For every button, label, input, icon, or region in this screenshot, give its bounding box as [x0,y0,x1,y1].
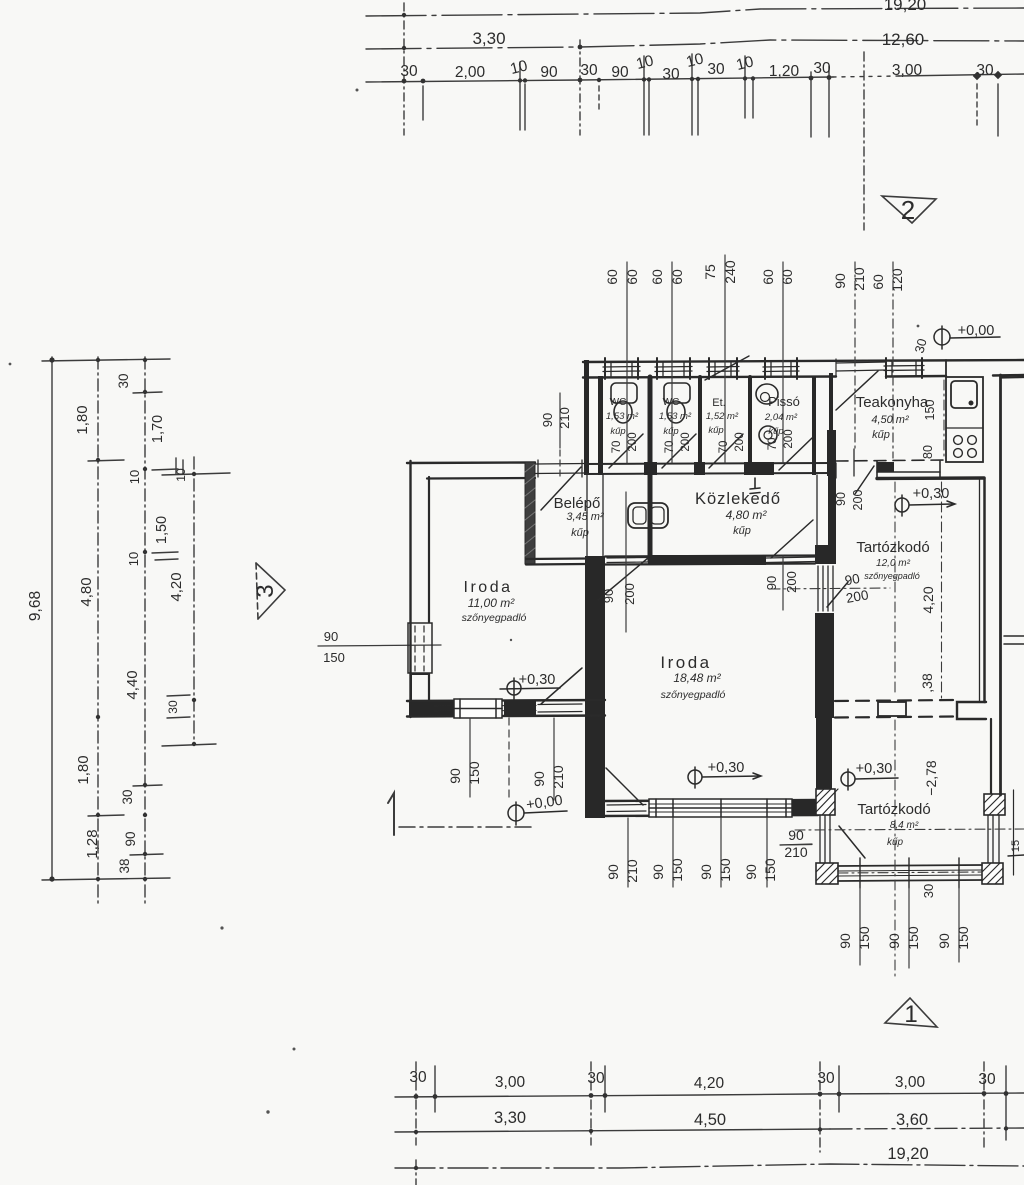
svg-text:10: 10 [734,53,755,74]
passage step Teakonyha/Tartozkodo [877,461,940,478]
rotated dims south left office [447,761,566,789]
SE step wall [957,702,986,719]
svg-text:3,00: 3,00 [895,1074,926,1091]
svg-text:80: 80 [921,445,935,459]
bottom chain labels [409,1069,996,1163]
svg-text:1,80: 1,80 [74,405,91,434]
svg-text:1: 1 [904,1001,917,1028]
svg-text:10: 10 [684,50,705,71]
svg-text:200: 200 [622,583,637,605]
svg-text:+0,30: +0,30 [913,486,950,502]
svg-text:75: 75 [702,264,718,280]
svg-text:4,20: 4,20 [168,572,185,601]
window WC1 [605,358,638,379]
svg-text:70: 70 [718,441,730,454]
svg-text:60: 60 [870,274,886,290]
level marker +0,30 lower Tartozkodo [841,769,898,790]
svg-text:90: 90 [531,771,547,787]
svg-text:200: 200 [845,587,870,606]
section line 1 left end [388,793,533,835]
ticks x745 x753 [744,56,746,118]
hatched pier NE lower [984,794,1005,815]
stray dots [9,89,920,1114]
Belepo door dim line [559,393,561,448]
corridor east door line [782,556,784,610]
svg-text:70: 70 [767,438,779,451]
dim line 19,20 top [366,8,1024,16]
rotated dims south main office [605,858,778,883]
left chain labels rotated [27,373,188,873]
double wash basin corridor [628,503,668,528]
dim pair Tartozkodo west door [844,571,870,606]
svg-text:Iroda: Iroda [464,579,513,596]
svg-text:Belépő: Belépő [554,495,601,512]
svg-text:WC: WC [610,397,627,408]
main office south wall [605,800,818,816]
svg-text:4,40: 4,40 [124,670,141,699]
level marker +0,00 Belepo terrace [508,802,567,825]
Belepo south wall [526,559,586,565]
svg-text:4,50: 4,50 [694,1111,726,1129]
hatched pier NW lower Tartozkodo [816,789,838,815]
toilet WC1 [611,383,637,423]
line B [97,357,99,905]
svg-text:18,48 m²: 18,48 m² [673,671,721,685]
svg-text:1,80: 1,80 [75,755,92,784]
dim line row 2 [395,1129,830,1132]
hatched pier SE lower [982,863,1003,884]
svg-text:10: 10 [508,57,529,78]
svg-text:30: 30 [409,1069,427,1086]
svg-text:4,20: 4,20 [920,586,936,613]
door leaf Teakonyha [836,371,878,410]
rotated dims right column [919,586,1022,852]
svg-text:90: 90 [886,933,902,949]
svg-text:19,20: 19,20 [884,0,927,14]
door leaf corridor east [771,520,813,558]
svg-text:210: 210 [624,859,640,883]
terminator top [42,359,170,361]
window size note 90/150 [323,629,345,665]
svg-text:3: 3 [252,584,279,597]
north facade wall lines [583,360,1024,378]
corridor south wall [605,556,815,565]
top chain labels [472,0,926,49]
window band main office south [649,799,792,817]
upper/lower Tartozkodo dashed dividing wall [835,700,956,718]
ticks x520 x525 [519,62,521,130]
svg-text:30: 30 [166,700,180,714]
svg-text:kűp: kűp [571,527,589,539]
svg-text:70: 70 [664,441,676,454]
svg-text:30: 30 [978,1071,996,1088]
dim line row 1 [395,1093,1024,1097]
svg-text:90: 90 [837,933,853,949]
lower Tartozkodo west wall [816,718,832,789]
Tartozkodo upper north wall [877,476,984,480]
line D 4,20 [193,457,195,745]
svg-text:90: 90 [324,629,338,644]
svg-text:kűp: kűp [663,426,678,437]
svg-text:60: 60 [779,269,795,285]
svg-text:30: 30 [817,1070,835,1087]
main office north door opening [607,558,648,563]
svg-text:3,30: 3,30 [494,1109,526,1127]
svg-text:szőnyegpadló: szőnyegpadló [462,612,527,624]
dim line 12,60 [366,40,1024,49]
tick x829 [828,66,830,137]
svg-text:1,28: 1,28 [84,829,101,858]
dim pair Tartozkodo NE door rotated [834,490,865,511]
svg-text:210: 210 [784,844,808,860]
tick bars on C [133,392,162,393]
svg-text:210: 210 [550,765,566,789]
window WC2 [657,358,690,379]
svg-text:Pissó: Pissó [768,394,800,409]
lower Tartozkodo south window band [838,865,982,881]
svg-text:30: 30 [976,62,994,79]
svg-text:240: 240 [722,260,738,284]
section marker 2 [882,196,936,223]
section marker 3 [256,563,285,619]
svg-text:,38: ,38 [919,673,935,693]
ref line A x404 [403,3,405,135]
svg-text:210: 210 [557,407,572,429]
svg-text:3,30: 3,30 [472,29,505,48]
svg-text:Tartózkodó: Tartózkodó [857,801,930,818]
svg-text:+0,30: +0,30 [856,761,893,777]
sanitary rooms south wall [585,463,835,474]
toilet WC2 [664,383,690,423]
Teakonyha south dashed opening [836,460,946,461]
svg-text:30: 30 [120,789,135,804]
svg-text:90: 90 [834,492,848,506]
svg-text:2,04 m²: 2,04 m² [764,412,798,423]
Teakonyha entry door opening [836,359,886,377]
svg-text:3,00: 3,00 [892,62,923,79]
tick dots top chain [402,13,1003,84]
svg-text:200: 200 [680,432,692,451]
svg-text:10: 10 [174,468,188,482]
tick x599 dashed [598,86,600,112]
door leaf main office south [606,768,643,805]
svg-text:60: 60 [649,269,665,285]
tick marks corridor [750,478,760,494]
svg-text:kűp: kűp [887,837,904,848]
corridor east door opening [766,557,815,563]
window in west wall [408,623,432,673]
door leaf terrace left office [541,668,582,704]
svg-text:200: 200 [851,490,865,511]
svg-text:30: 30 [662,66,680,83]
svg-text:12,0 m²: 12,0 m² [876,558,911,569]
partition WC1/WC2 with plumbing stack [648,377,653,561]
svg-text:90: 90 [788,827,804,843]
lower Tartozkodo east window jambs [988,815,999,863]
svg-text:2,00: 2,00 [455,64,486,81]
window in south wall left office [454,699,502,718]
Tartozkodo west door jambs [818,566,833,611]
svg-text:150: 150 [955,926,971,950]
kitchen counter [946,377,983,462]
lower Tartozkodo west door jambs [820,815,830,863]
svg-text:Közlekedő: Közlekedő [695,490,781,508]
svg-text:150: 150 [323,650,345,665]
east boundary walls [1001,375,1024,875]
svg-text:90: 90 [540,413,555,427]
svg-text:90: 90 [936,933,952,949]
left office north wall [407,463,535,479]
terrace door opening left office [538,704,582,712]
svg-text:19,20: 19,20 [887,1145,928,1163]
svg-text:11,00 m²: 11,00 m² [468,596,515,610]
svg-text:90: 90 [540,64,558,81]
flue slash Et [705,356,749,380]
svg-text:30: 30 [116,373,131,388]
svg-text:90: 90 [844,571,861,588]
corridor west opening jambs (Belepo passage) [587,475,603,556]
rotated dim pairs above north wall [604,260,905,292]
west wall of sanitary block / corridor (thick) [584,360,605,818]
svg-text:3,45 m²: 3,45 m² [566,511,604,523]
svg-text:−2,78: −2,78 [923,760,939,796]
door leaf main office north [598,558,648,600]
south projection lines main office [627,818,629,887]
hatched pier SW lower Tartozkodo [816,863,838,884]
urinal Pisso [756,384,778,444]
level marker +0,30 left office [500,678,560,699]
svg-text:30: 30 [921,884,936,898]
svg-text:60: 60 [669,269,685,285]
lower Tartozkodo east wall [990,719,992,794]
south wall of left office [407,700,605,717]
vertical refs [415,1062,417,1145]
Belepo north wall with entry door [535,460,586,477]
north wall pier separators [922,360,946,377]
level marker +0,30 Tartozkodo upper [895,495,955,516]
svg-text:200: 200 [783,429,795,448]
svg-text:12,60: 12,60 [882,30,925,49]
svg-text:+0,00: +0,00 [525,793,564,814]
svg-text:Tartózkodó: Tartózkodó [856,539,929,556]
svg-text:200: 200 [627,432,639,451]
svg-text:90: 90 [123,831,138,846]
svg-text:90: 90 [611,64,629,81]
south projection lines left office [469,718,471,797]
line A 9,68 [51,357,53,881]
svg-text:kűp: kűp [708,425,723,436]
svg-text:90: 90 [601,589,616,603]
svg-text:kűp: kűp [733,525,751,537]
svg-text:1,50: 1,50 [154,516,170,544]
svg-text:90: 90 [743,864,759,880]
tick x998 [997,84,999,136]
svg-text:90: 90 [650,864,666,880]
svg-text:10: 10 [127,470,142,484]
svg-text:kűp: kűp [872,429,890,441]
svg-text:15: 15 [1010,840,1022,852]
level marker +0,30 main office [688,767,761,788]
svg-text:150: 150 [669,858,685,882]
svg-text:3,60: 3,60 [896,1111,928,1129]
svg-text:90: 90 [832,273,848,289]
svg-text:90: 90 [447,768,463,784]
rotated dim pair Belepo north door [540,407,572,429]
svg-text:+0,30: +0,30 [519,672,556,688]
svg-text:38: 38 [117,858,132,873]
svg-text:120: 120 [889,268,905,292]
north windows [603,358,924,379]
window Pisso [765,358,797,379]
rotated dim pair main office north door [601,571,799,605]
svg-text:150: 150 [762,858,778,882]
triangle marker 1 [885,998,937,1027]
partition Et/Pisso [748,377,752,463]
svg-text:1,52 m²: 1,52 m² [706,411,739,422]
pier in south wall [504,700,536,716]
svg-text:+0,30: +0,30 [708,760,745,776]
svg-text:1,20: 1,20 [769,63,800,80]
svg-text:kűp: kűp [768,426,783,437]
svg-text:10: 10 [634,52,655,73]
svg-text:30: 30 [400,63,418,80]
window Et [709,358,737,379]
svg-text:4,80: 4,80 [78,577,95,606]
svg-text:kűp: kűp [610,426,625,437]
centerlines dash-dot [770,380,1024,977]
Tartozkodo east wall inner [980,478,985,702]
svg-text:3,00: 3,00 [495,1074,526,1091]
svg-text:70: 70 [611,441,623,454]
svg-text:1,53 m²: 1,53 m² [606,411,639,422]
svg-text:szőnyegpadló: szőnyegpadló [661,689,726,701]
svg-text:150: 150 [717,858,733,882]
west wall lower block [411,674,429,701]
svg-text:60: 60 [760,269,776,285]
tick x977 dashed [976,84,978,128]
section line 2 x864 [863,52,865,230]
main office north door centerline [625,492,627,632]
svg-text:30: 30 [587,1070,605,1087]
svg-text:4,50 m²: 4,50 m² [871,414,909,426]
Belepo west wall (hatched pier) [525,462,535,564]
svg-text:4,80 m²: 4,80 m² [726,508,768,522]
svg-text:Teakonyha: Teakonyha [856,394,929,411]
svg-text:60: 60 [604,269,620,285]
svg-text:Et.: Et. [712,397,725,409]
north dim projection lines [626,262,628,463]
svg-text:8,4 m²: 8,4 m² [890,820,919,831]
svg-text:150: 150 [905,926,921,950]
main office south door opening [607,805,646,812]
svg-text:4,20: 4,20 [694,1075,725,1092]
south projection lines lower Tartozkodo [859,888,861,965]
svg-text:szőnyegpadló: szőnyegpadló [864,571,920,581]
svg-text:Iroda: Iroda [660,653,711,672]
east wall of corridor (thick) [812,373,836,718]
svg-text:1,53 m²: 1,53 m² [659,411,692,422]
svg-text:90: 90 [698,864,714,880]
svg-text:200: 200 [734,432,746,451]
door leaf lower Tartozkodo [839,826,865,858]
bottom dimension chain [395,1062,1024,1185]
terminator bottom [42,878,170,880]
svg-text:WC: WC [663,397,680,408]
svg-text:90: 90 [764,576,779,590]
svg-text:150: 150 [466,761,482,785]
left office outer west wall [411,461,430,717]
svg-text:90: 90 [605,864,621,880]
ticks x644 x649 [643,56,645,135]
rotated dims south lower Tartozkodo [837,884,971,950]
ref x580 [579,40,581,135]
top dimension chain [366,3,1024,230]
svg-text:+0,00: +0,00 [958,323,995,339]
level marker +0,00 outside NE [934,326,1000,349]
door leaf Tartozkodo west [827,582,848,607]
tick x811 [810,72,812,137]
svg-text:9,68: 9,68 [27,591,44,621]
D bottom terminator [162,744,216,746]
svg-text:150: 150 [856,926,872,950]
tick bars on B [88,460,124,461]
Tartozkodo upper NE door from passage [855,466,874,494]
partition WC2/Et [698,377,702,463]
rotated dim pairs WC doors [611,429,795,453]
window Teakonyha [886,358,922,378]
tick x423 [422,86,424,120]
svg-text:2: 2 [901,195,915,225]
svg-text:30: 30 [707,61,725,78]
svg-text:30: 30 [580,62,598,79]
line C [144,357,146,905]
svg-text:30: 30 [912,337,930,355]
svg-text:30: 30 [813,60,831,77]
dim pair lower Tartozkodo door horizontal [780,827,812,860]
kitchen side rotated dims [921,400,937,459]
dim line row 3 [395,1164,1024,1168]
corridor east opening jambs [817,475,832,545]
dim line small spans [366,77,833,82]
Tartozkodo upper west wall segment below corridor [828,476,836,564]
svg-text:210: 210 [851,267,867,291]
ticks x692 x698 [691,54,693,135]
svg-text:200: 200 [784,571,799,593]
svg-text:10: 10 [126,552,141,566]
door leaves WC1 WC2 Et Pisso [609,434,812,470]
svg-text:60: 60 [624,269,640,285]
left vertical dimension chain [42,357,230,905]
svg-text:1,70: 1,70 [150,415,166,443]
entry door leaf [541,467,581,510]
D top terminator [162,473,230,475]
